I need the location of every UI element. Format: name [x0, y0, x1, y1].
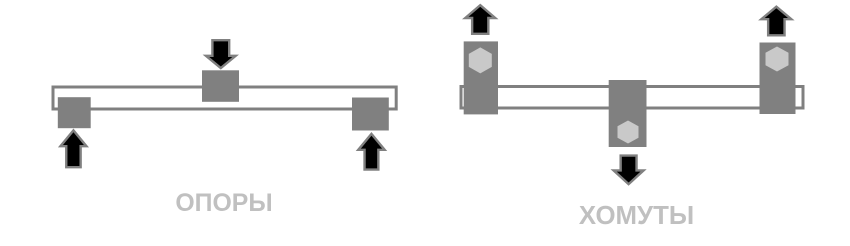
- right clamp body: [760, 43, 796, 115]
- center clamp body: [609, 80, 647, 147]
- right clamp up arrow: [761, 7, 791, 36]
- left up arrow (reaction): [60, 130, 86, 167]
- svg-text:ХОМУТЫ: ХОМУТЫ: [579, 202, 694, 230]
- down arrow (load): [206, 40, 236, 68]
- left support block: [58, 97, 91, 128]
- svg-text:ОПОРЫ: ОПОРЫ: [175, 190, 272, 217]
- left clamp bolt hexagon: [469, 47, 492, 73]
- center clamp bolt hexagon: [618, 121, 639, 144]
- right clamp bolt hexagon: [766, 47, 789, 72]
- right support block: [352, 98, 389, 131]
- right up arrow (reaction): [358, 134, 384, 170]
- center load block: [202, 70, 239, 102]
- left clamp body: [464, 41, 498, 114]
- left beam (bar with outline): [53, 87, 396, 109]
- center clamp down arrow: [614, 156, 644, 184]
- right beam (bar with outline): [461, 87, 803, 109]
- left clamp up arrow: [465, 5, 495, 34]
